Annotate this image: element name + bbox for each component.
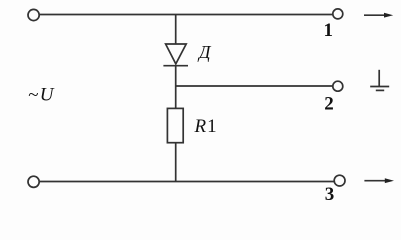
svg-text:Д: Д	[197, 42, 212, 62]
svg-text:R1: R1	[194, 116, 217, 137]
svg-text:1: 1	[324, 20, 334, 41]
svg-text:2: 2	[324, 94, 334, 115]
svg-text:3: 3	[325, 184, 335, 205]
svg-text:~U: ~U	[28, 85, 55, 106]
